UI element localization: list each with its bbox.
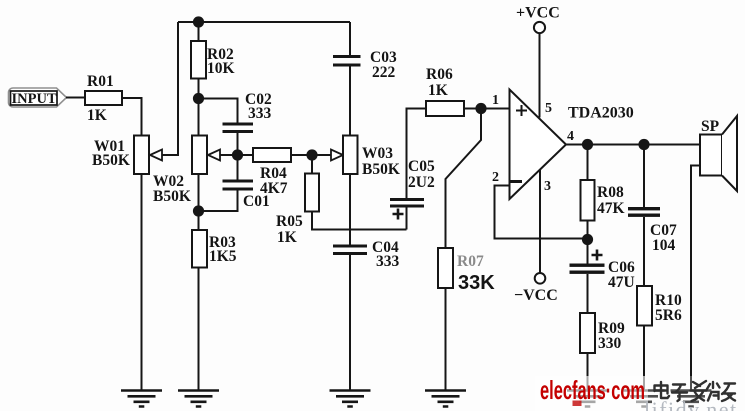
junction R02 bottom node <box>193 93 204 104</box>
capacitor C03 plates <box>333 55 361 58</box>
ground W01 <box>121 391 162 407</box>
wire pin1 node to R07 diagonal <box>446 109 482 249</box>
junction feedback C06 node <box>582 234 593 245</box>
wire W01 bottom to ground <box>141 174 143 390</box>
svg-text:C05: C05 <box>408 158 435 175</box>
svg-text:47K: 47K <box>597 200 625 217</box>
watermark chinese characters <box>655 381 736 401</box>
op-amp plus input sign <box>516 105 527 116</box>
svg-text:4: 4 <box>567 129 574 144</box>
svg-text:TDA2030: TDA2030 <box>568 105 634 122</box>
wire C03 top to rail <box>349 22 351 55</box>
terminal +VCC circle <box>534 22 545 33</box>
capacitor C02 plates <box>223 123 254 126</box>
svg-text:4K7: 4K7 <box>260 180 288 197</box>
capacitor C04 plates <box>333 245 367 248</box>
svg-text:3: 3 <box>544 179 551 194</box>
resistor R05 <box>305 174 319 212</box>
wire W02 wiper to node <box>220 154 238 156</box>
svg-text:R01: R01 <box>87 73 114 90</box>
wire C07 bottom to R10 <box>643 217 645 286</box>
wire R04 right to W03 wiper <box>291 154 332 156</box>
wire W01 wiper to riser <box>162 22 178 155</box>
wire R08 drop <box>587 145 589 181</box>
ground R07 <box>425 391 466 407</box>
wire output to speaker <box>566 144 700 146</box>
wire R09 bottom to ground <box>587 353 589 390</box>
svg-text:333: 333 <box>248 105 272 122</box>
svg-text:1K5: 1K5 <box>209 248 237 265</box>
wire node to R04 <box>238 154 254 156</box>
svg-text:47U: 47U <box>608 274 635 291</box>
svg-text:INPUT: INPUT <box>12 91 57 107</box>
svg-text:5: 5 <box>545 101 552 116</box>
node INPUT tag inner box <box>11 91 58 105</box>
wire C05 top to R06 left <box>407 109 427 199</box>
wire top rail <box>178 21 350 23</box>
capacitor C05 plus sign <box>393 209 404 220</box>
svg-text:R05: R05 <box>276 213 303 230</box>
wiper arrow W02 <box>208 150 220 161</box>
junction C01 R03 node <box>193 205 204 216</box>
speaker SP body <box>700 135 722 176</box>
capacitor C07 plates <box>628 207 660 210</box>
watermark background fade <box>535 376 648 411</box>
svg-text:R07: R07 <box>457 253 484 270</box>
wire W03 bottom to C04 <box>349 174 351 245</box>
terminal -VCC circle <box>535 273 546 284</box>
svg-text:−VCC: −VCC <box>514 287 558 304</box>
svg-text:330: 330 <box>598 335 622 352</box>
svg-text:+VCC: +VCC <box>516 5 560 22</box>
capacitor C06 plates <box>570 264 605 267</box>
wiper arrow W01 <box>150 150 162 161</box>
wire C04 bottom to ground <box>349 255 351 390</box>
svg-text:B50K: B50K <box>362 161 400 178</box>
svg-text:B50K: B50K <box>153 188 191 205</box>
node INPUT tag outer outline <box>9 88 67 107</box>
potentiometer W01 <box>134 136 149 175</box>
wire R07 bottom to ground <box>445 288 447 390</box>
svg-text:333: 333 <box>376 253 400 270</box>
capacitor C06 plus sign <box>592 250 603 261</box>
capacitor C05 plates <box>390 198 424 201</box>
junction top rail node <box>193 16 204 27</box>
op-amp U1 TDA2030 <box>510 90 567 200</box>
resistor R07 <box>438 248 453 288</box>
svg-text:1K: 1K <box>428 82 448 99</box>
ground R09 <box>567 391 608 407</box>
svg-text:222: 222 <box>372 64 396 81</box>
svg-text:33K: 33K <box>458 272 495 294</box>
resistor R09 <box>580 313 595 353</box>
junction output R08 node <box>582 139 593 150</box>
svg-text:W03: W03 <box>362 145 393 162</box>
wire C07 drop <box>643 145 645 208</box>
op-amp minus input sign <box>511 180 523 183</box>
svg-text:1K: 1K <box>87 107 107 124</box>
svg-text:1: 1 <box>492 93 499 108</box>
wire R05 bottom rail to C05 <box>312 212 407 230</box>
potentiometer W03 <box>343 136 358 175</box>
wire C06 bottom to R09 <box>587 274 589 313</box>
svg-text:1K: 1K <box>277 229 297 246</box>
wire +VCC to pin 5 <box>539 33 541 118</box>
wire speaker return to ground <box>691 166 700 391</box>
wire R10 bottom to ground <box>643 326 645 391</box>
wire R03 bottom to ground <box>198 268 200 391</box>
svg-text:5R6: 5R6 <box>655 307 682 324</box>
ground R03 <box>178 391 219 407</box>
resistor R08 <box>581 180 595 221</box>
wire R01 right to W01 top <box>122 98 142 136</box>
wire R08 bottom to C06 top <box>587 221 589 264</box>
junction R04 right node <box>306 149 317 160</box>
wire C03 bottom to W03 top <box>349 67 351 136</box>
resistor R06 <box>426 101 464 116</box>
svg-text:SP: SP <box>701 118 720 135</box>
speaker SP cone <box>722 116 737 191</box>
svg-text:2: 2 <box>492 170 499 185</box>
wire W02 bottom through node to R03 <box>198 174 200 230</box>
wire pin 2 stub <box>495 186 588 239</box>
resistor R04 <box>253 148 291 162</box>
svg-text:R06: R06 <box>426 66 453 83</box>
capacitor C01 plates <box>223 180 254 183</box>
wiper arrow W03 <box>331 150 343 161</box>
wire C01 bottom to R03 node <box>199 191 238 212</box>
svg-text:2U2: 2U2 <box>408 174 435 191</box>
ground speaker <box>671 391 712 407</box>
resistor R03 <box>192 230 207 268</box>
wire R05 drop <box>311 155 313 174</box>
svg-text:R08: R08 <box>597 184 624 201</box>
svg-text:lifidy.net: lifidy.net <box>644 397 738 411</box>
resistor R10 <box>637 286 652 326</box>
resistor R01 <box>85 91 122 105</box>
svg-text:B50K: B50K <box>92 152 130 169</box>
junction W02 wiper node <box>232 149 243 160</box>
ground C04 <box>330 391 371 407</box>
wire C02 bottom to C01 top <box>237 133 239 180</box>
wire R02 top stub <box>198 22 200 41</box>
svg-text:10K: 10K <box>207 60 235 77</box>
watermark red fragment below elecfans <box>573 401 582 407</box>
svg-text:elecfans·com: elecfans·com <box>540 375 645 405</box>
wire junction to C02 top <box>199 99 238 123</box>
wire INPUT to R01 <box>66 97 86 99</box>
wire R02 bottom to W02 top <box>198 79 200 136</box>
potentiometer W02 <box>192 136 207 175</box>
ground R10 <box>624 391 665 407</box>
wire pin 3 to -VCC <box>539 169 541 273</box>
junction pin 1 node <box>475 103 486 114</box>
junction output C07 node <box>638 139 649 150</box>
svg-text:104: 104 <box>652 237 676 254</box>
wire C05 bottom to rail <box>406 208 408 230</box>
wire R06 right to op-amp pin 1 <box>464 108 510 110</box>
resistor R02 <box>191 41 206 79</box>
